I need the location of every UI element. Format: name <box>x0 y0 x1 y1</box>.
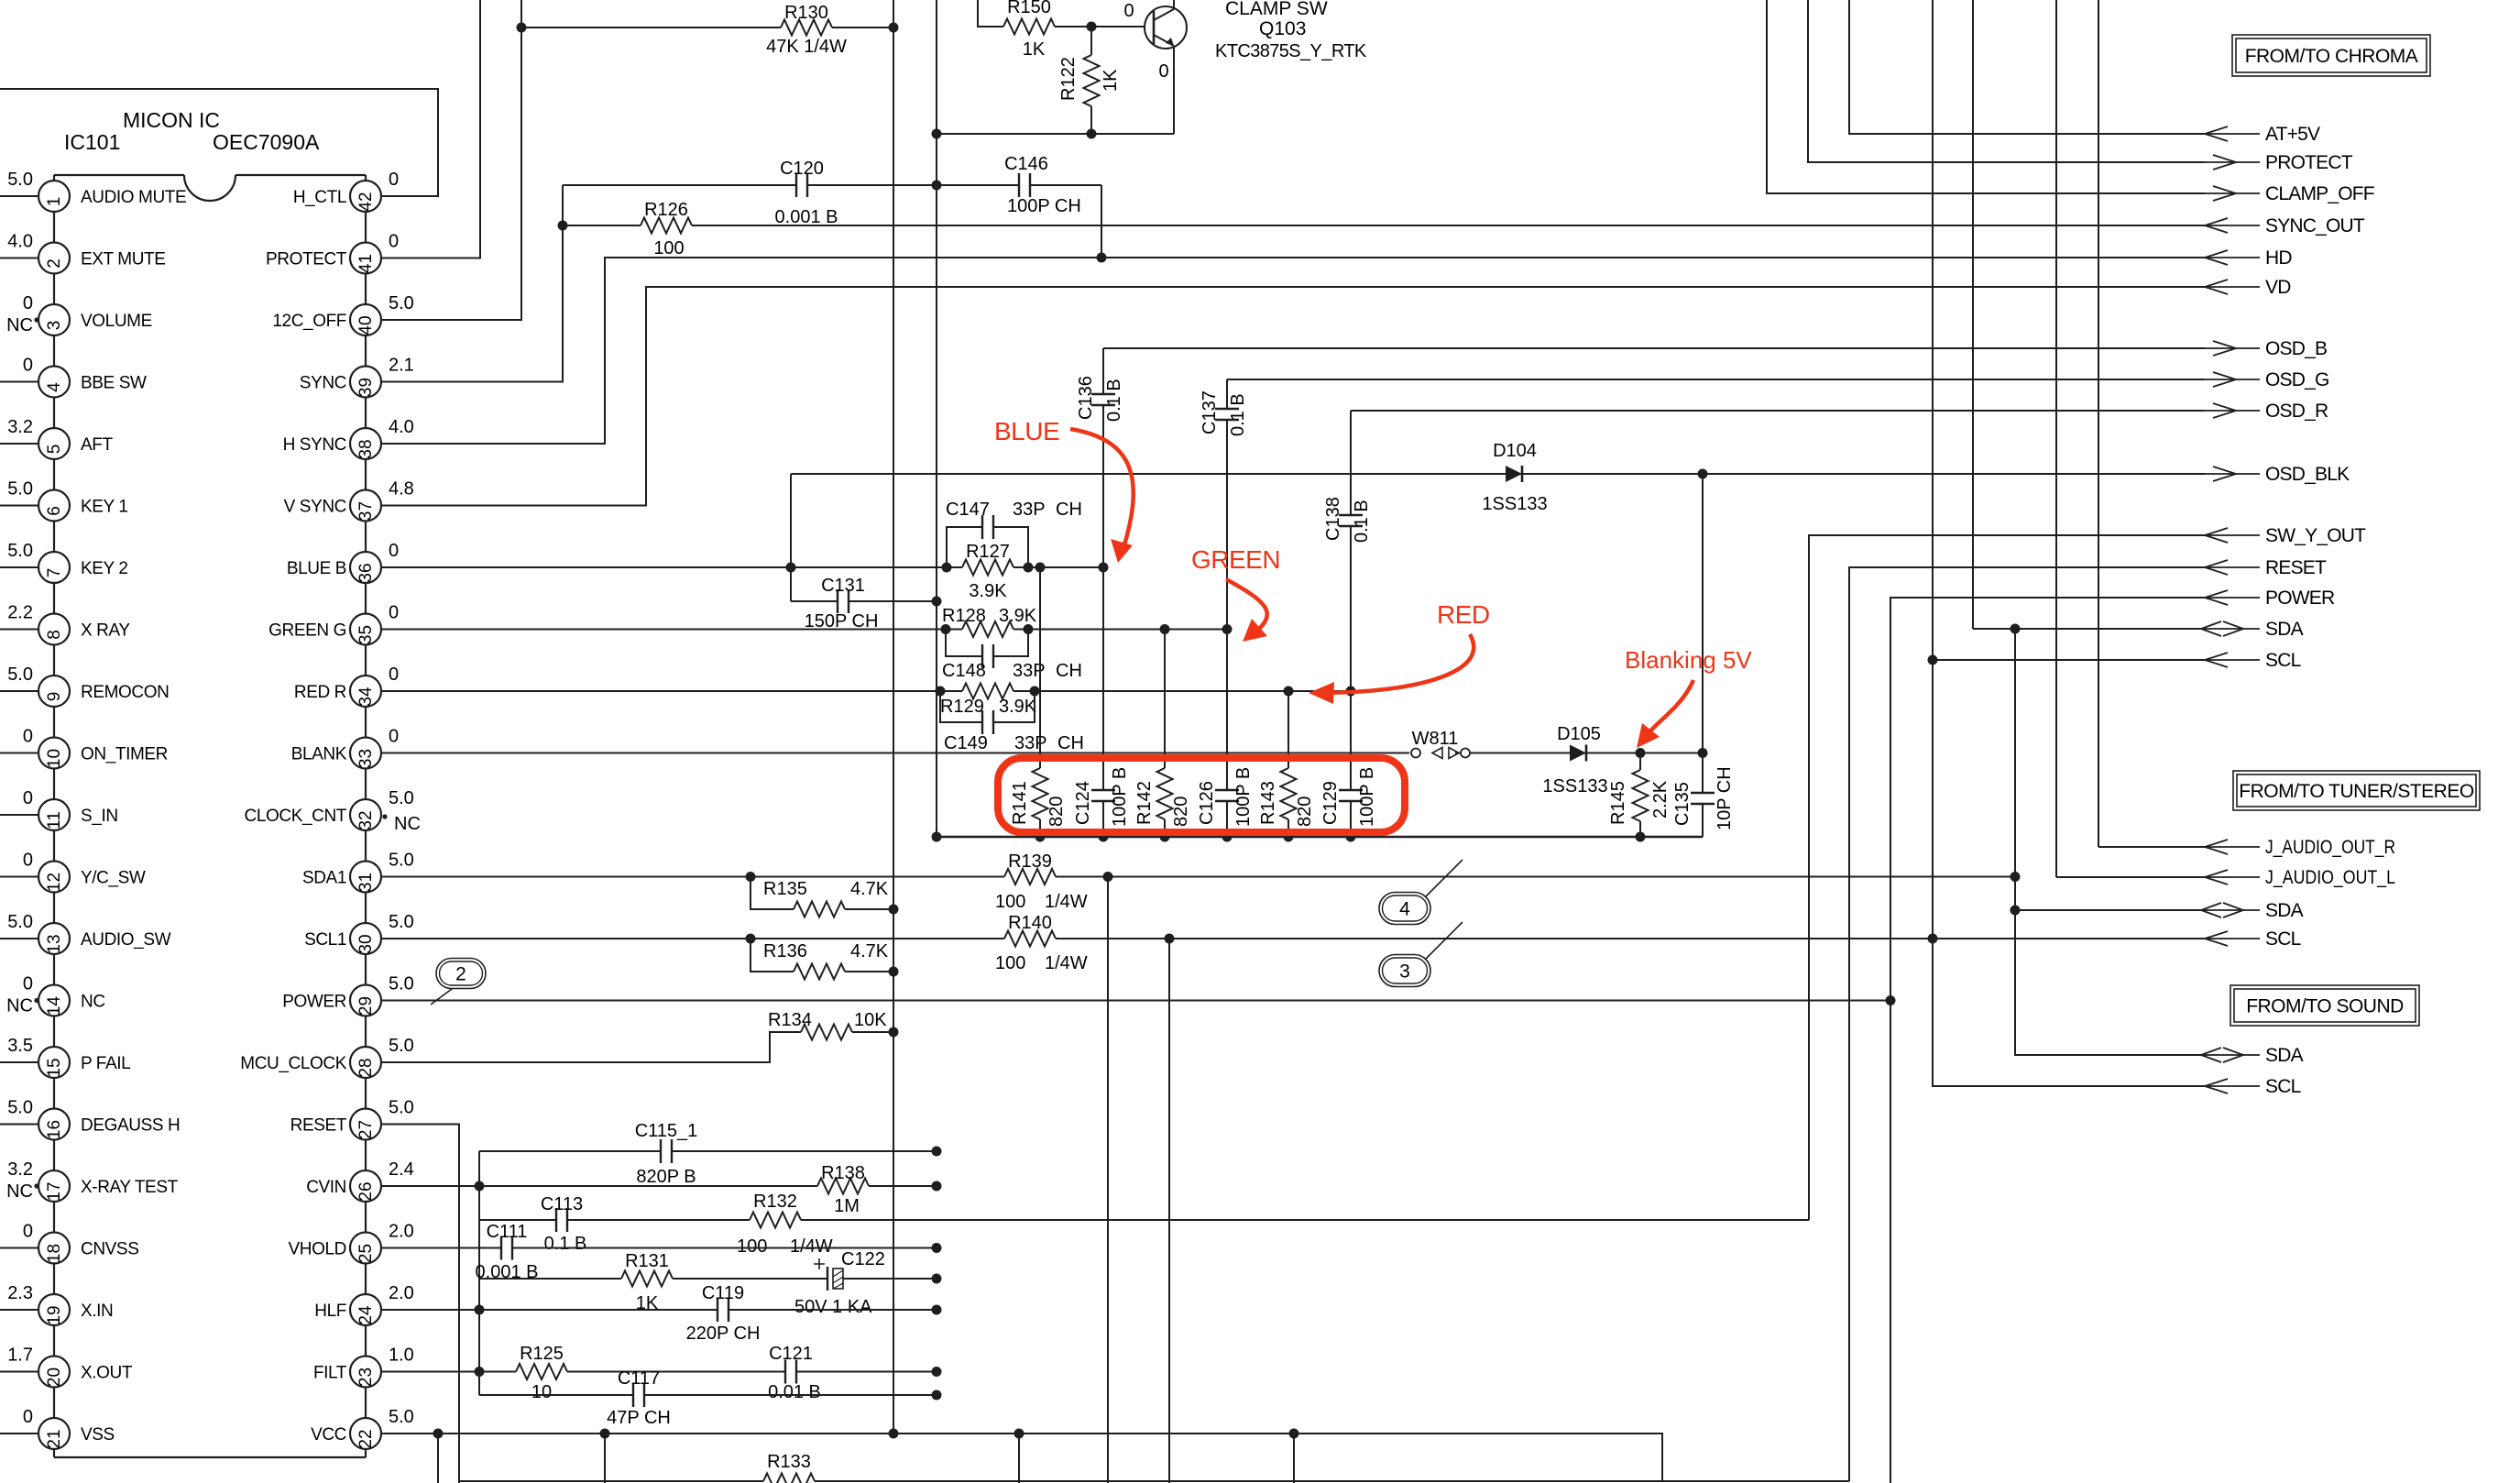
junction pin40 net / R130 <box>517 23 527 33</box>
svg-text:5.0: 5.0 <box>7 1098 33 1118</box>
svg-text:CLAMP_OFF: CLAMP_OFF <box>2265 183 2374 204</box>
junction tuner SDA / vertical <box>2011 906 2021 916</box>
wire chroma SDA line <box>1973 628 2205 630</box>
junction R130 / +5V rail <box>889 23 899 33</box>
svg-text:C147: C147 <box>946 500 990 520</box>
IC pin 25 VHOLD <box>350 1233 381 1264</box>
wire PROTECT pin41 up off-page <box>381 0 480 258</box>
svg-text:R145: R145 <box>1608 781 1628 825</box>
wire vertical below VCC x=660 <box>604 1434 606 1483</box>
svg-text:33P: 33P <box>1013 500 1046 520</box>
svg-text:C115_1: C115_1 <box>635 1121 698 1141</box>
FROM/TO CHROMA box <box>2232 35 2430 76</box>
svg-text:IC101: IC101 <box>64 130 120 154</box>
svg-text:SDA1: SDA1 <box>302 869 346 888</box>
signal SYNC_OUT to chroma <box>2205 225 2260 226</box>
svg-text:W811: W811 <box>1412 729 1459 749</box>
svg-text:50V 1 KA: 50V 1 KA <box>794 1297 872 1317</box>
svg-text:BLANK: BLANK <box>291 745 347 764</box>
resistor R126 <box>641 224 692 226</box>
svg-text:3.9K: 3.9K <box>999 606 1037 626</box>
svg-text:RED R: RED R <box>294 683 346 702</box>
svg-text:C148: C148 <box>942 661 986 681</box>
svg-text:C124: C124 <box>1073 781 1093 825</box>
junction VHOLD / right vertical <box>932 1243 942 1253</box>
svg-text:10P CH: 10P CH <box>1715 766 1735 830</box>
resistor R143 value 820 <box>1287 691 1289 837</box>
signal OSD_G to chroma <box>2205 379 2260 380</box>
wire H_CTL pin42 to top-left <box>0 89 438 196</box>
wire OSD_R line <box>1351 410 2205 412</box>
capacitor C115_1 <box>661 1149 673 1153</box>
svg-text:R143: R143 <box>1258 781 1278 825</box>
svg-text:2.1: 2.1 <box>389 356 414 376</box>
svg-text:20: 20 <box>45 1368 64 1387</box>
svg-text:9: 9 <box>45 692 64 702</box>
svg-text:820: 820 <box>1295 796 1315 827</box>
svg-text:18: 18 <box>45 1244 64 1263</box>
svg-text:FROM/TO SOUND: FROM/TO SOUND <box>2246 996 2404 1017</box>
junction R136 / +5V rail <box>889 967 899 977</box>
svg-text:1SS133: 1SS133 <box>1542 776 1607 796</box>
junction GREEN / R128 right <box>1024 624 1034 634</box>
junction SYNC / R126 <box>558 221 568 231</box>
svg-text:220P CH: 220P CH <box>686 1324 761 1344</box>
svg-text:R131: R131 <box>625 1251 669 1271</box>
IC pin 33 BLANK <box>350 738 381 769</box>
svg-text:VHOLD: VHOLD <box>289 1240 346 1259</box>
svg-text:13: 13 <box>45 934 64 953</box>
wire SYNC_OUT line (R126) <box>563 225 2205 226</box>
junction R145 / bus <box>1636 832 1646 842</box>
signal OSD_BLK to chroma <box>2205 473 2260 475</box>
svg-text:26: 26 <box>356 1181 376 1201</box>
svg-text:R122: R122 <box>1058 57 1079 101</box>
junction RED / R129 right <box>1030 687 1040 697</box>
svg-text:SCL: SCL <box>2265 650 2301 671</box>
svg-text:AFT: AFT <box>81 435 113 455</box>
wire J_AUDIO_OUT_R vertical <box>2098 0 2099 847</box>
svg-text:1K: 1K <box>1023 39 1046 60</box>
resistor R139 <box>1004 875 1056 878</box>
wire HLF line <box>381 1309 937 1311</box>
svg-text:OEC7090A: OEC7090A <box>213 130 320 154</box>
junction RED / R129 left <box>936 687 946 697</box>
wire R131 C122 line <box>479 1278 937 1280</box>
svg-text:1.0: 1.0 <box>389 1346 414 1366</box>
svg-text:OSD_G: OSD_G <box>2265 369 2329 390</box>
svg-text:3.2: 3.2 <box>7 1159 33 1180</box>
junction RED / C138 C129 node <box>1346 687 1356 697</box>
junction VCC / vertical x=1112 <box>1014 1429 1024 1439</box>
svg-text:MCU_CLOCK: MCU_CLOCK <box>240 1054 346 1073</box>
signal CLAMP_OFF to chroma <box>2205 192 2260 194</box>
junction RED / R143 <box>1284 687 1294 697</box>
svg-text:22: 22 <box>356 1429 376 1448</box>
capacitor C138 branch from OSD_R <box>1350 411 1352 691</box>
svg-text:3.9K: 3.9K <box>999 697 1037 717</box>
svg-text:34: 34 <box>356 687 376 707</box>
svg-text:SYNC: SYNC <box>300 374 346 393</box>
IC pin 11 S_IN <box>0 814 38 816</box>
svg-text:0: 0 <box>389 665 399 685</box>
svg-text:41: 41 <box>356 254 376 273</box>
svg-text:31: 31 <box>356 873 376 892</box>
IC pin 5 AFT <box>0 443 38 445</box>
svg-text:R127: R127 <box>966 542 1010 562</box>
svg-text:6: 6 <box>45 506 64 516</box>
signal PROTECT to chroma <box>2205 161 2260 163</box>
red arrow RED <box>1327 634 1474 693</box>
svg-text:Y/C_SW: Y/C_SW <box>81 869 146 888</box>
junction HLF / right vertical <box>932 1305 942 1315</box>
wire FILT line <box>381 1371 937 1373</box>
svg-text:5.0: 5.0 <box>389 1098 414 1118</box>
IC pin 34 RED R <box>350 676 381 707</box>
wire AT+5V chroma from top <box>1849 0 2205 134</box>
wire chroma SCL line <box>1933 659 2205 661</box>
svg-text:0: 0 <box>23 851 33 871</box>
red arrow Blanking 5V <box>1645 680 1693 737</box>
svg-text:R138: R138 <box>821 1163 865 1183</box>
svg-text:OSD_B: OSD_B <box>2265 338 2327 359</box>
junction C146 / HD line <box>1097 253 1107 263</box>
svg-text:SCL1: SCL1 <box>304 930 346 950</box>
svg-text:C149: C149 <box>944 733 988 753</box>
capacitor C149 <box>982 720 994 724</box>
svg-text:VSS: VSS <box>81 1425 115 1445</box>
svg-text:RESET: RESET <box>290 1116 347 1136</box>
resistor R132 <box>750 1218 801 1221</box>
junction chroma SCL <box>1928 655 1938 665</box>
svg-text:HD: HD <box>2265 247 2292 269</box>
svg-text:1K: 1K <box>1101 69 1121 92</box>
wire R135 jog <box>751 877 893 910</box>
svg-text:33: 33 <box>356 749 376 768</box>
svg-text:PROTECT: PROTECT <box>266 250 347 269</box>
svg-text:C126: C126 <box>1197 781 1217 825</box>
IC pin 17 X-RAY TEST <box>38 1170 70 1202</box>
svg-text:X.OUT: X.OUT <box>81 1364 133 1383</box>
svg-text:FROM/TO CHROMA: FROM/TO CHROMA <box>2245 46 2418 67</box>
wire OSD_BLK drop to BLUE <box>790 474 792 601</box>
IC pin 41 PROTECT <box>350 243 381 274</box>
svg-text:C121: C121 <box>769 1344 813 1364</box>
svg-text:4: 4 <box>45 382 64 392</box>
svg-text:820: 820 <box>1171 796 1191 827</box>
svg-text:17: 17 <box>45 1181 64 1201</box>
wire VHOLD line <box>381 1247 937 1249</box>
svg-text:100: 100 <box>653 238 684 258</box>
svg-text:FILT: FILT <box>313 1364 347 1383</box>
wire C120 C146 line <box>563 184 1101 186</box>
svg-text:C135: C135 <box>1672 782 1693 826</box>
junction BLUE / R141 <box>1035 563 1046 573</box>
svg-text:GREEN: GREEN <box>1191 545 1280 574</box>
svg-text:0.1 B: 0.1 B <box>544 1234 587 1254</box>
svg-text:3.5: 3.5 <box>7 1036 33 1056</box>
svg-text:14: 14 <box>45 996 64 1016</box>
signal HD to chroma <box>2205 257 2260 258</box>
wire C115_1 line <box>479 1150 937 1152</box>
svg-text:32: 32 <box>356 810 376 829</box>
svg-text:2.0: 2.0 <box>389 1283 414 1303</box>
svg-text:R140: R140 <box>1008 913 1052 933</box>
IC pin 38 H SYNC <box>350 428 381 459</box>
svg-text:2.2K: 2.2K <box>1650 780 1671 818</box>
wire 12C_OFF pin40 up off-page <box>381 0 521 320</box>
junction BLUE / R127 right <box>1024 563 1034 573</box>
capacitor C136 branch from OSD_B <box>1102 348 1104 567</box>
wire BLUE B line <box>381 566 1103 568</box>
junction BLANK / R145 <box>1636 748 1646 758</box>
junction SCL1 / down vertical <box>1165 934 1175 944</box>
svg-text:100P B: 100P B <box>1110 767 1130 827</box>
svg-text:3: 3 <box>45 321 64 331</box>
resistor R129 <box>962 689 1013 692</box>
svg-text:27: 27 <box>356 1120 376 1139</box>
svg-text:0: 0 <box>23 1222 33 1242</box>
svg-text:35: 35 <box>356 625 376 644</box>
svg-text:0: 0 <box>389 541 399 561</box>
IC pin 35 GREEN G <box>350 614 381 645</box>
wire V SYNC pin37 to VD line <box>381 287 2205 506</box>
svg-text:30: 30 <box>356 934 376 953</box>
resistor R140 <box>1004 937 1056 939</box>
signal POWER to chroma <box>2205 597 2260 599</box>
svg-text:0: 0 <box>23 356 33 376</box>
svg-text:C137: C137 <box>1200 390 1220 434</box>
junction chroma SDA / I2C vertical <box>2011 624 2021 634</box>
svg-text:1: 1 <box>45 197 64 207</box>
svg-text:42: 42 <box>356 192 376 211</box>
junction SCL1 / R136 tap <box>746 934 756 944</box>
resistor R134 <box>801 1030 852 1033</box>
svg-text:CNVSS: CNVSS <box>81 1240 138 1259</box>
resistor R127 <box>962 566 1013 568</box>
svg-text:SDA: SDA <box>2265 900 2304 921</box>
wire C146 jog down to HD <box>1101 185 1102 258</box>
svg-text:AT+5V: AT+5V <box>2265 124 2320 145</box>
svg-text:R150: R150 <box>1007 0 1051 17</box>
svg-text:NC: NC <box>6 1181 33 1202</box>
svg-text:CVIN: CVIN <box>306 1178 346 1197</box>
svg-text:C146: C146 <box>1004 154 1048 174</box>
svg-text:C129: C129 <box>1320 781 1341 825</box>
transistor Q103 <box>1145 6 1187 49</box>
svg-text:21: 21 <box>45 1429 64 1448</box>
signal VD to chroma <box>2205 286 2260 288</box>
wire GREEN G line <box>381 629 1227 631</box>
svg-text:CH: CH <box>1056 661 1082 681</box>
IC pin 23 FILT <box>350 1357 381 1388</box>
svg-text:R142: R142 <box>1134 781 1155 825</box>
svg-text:C138: C138 <box>1323 497 1343 541</box>
svg-text:19: 19 <box>45 1305 64 1324</box>
wire RED R line <box>381 690 1351 692</box>
wire R133 bottom line <box>459 1480 1849 1482</box>
junction Q103 base node <box>1087 22 1097 32</box>
svg-text:DEGAUSS H: DEGAUSS H <box>81 1116 180 1136</box>
svg-text:0.1 B: 0.1 B <box>1228 393 1248 436</box>
svg-text:NC: NC <box>81 993 105 1012</box>
svg-text:0: 0 <box>23 727 33 747</box>
svg-text:MICON IC: MICON IC <box>123 108 220 132</box>
junction C115_1 / right vertical <box>932 1147 942 1157</box>
red arrow BLUE <box>1070 429 1134 548</box>
svg-text:AUDIO_SW: AUDIO_SW <box>81 930 171 950</box>
wire POWER chroma line <box>1890 598 2205 1483</box>
wire RESET chroma line <box>1849 567 2205 1481</box>
signal tuner SCL arrow <box>2205 938 2260 939</box>
svg-text:Blanking 5V: Blanking 5V <box>1625 646 1752 674</box>
svg-text:820P B: 820P B <box>636 1167 696 1187</box>
svg-text:R128: R128 <box>942 606 986 626</box>
svg-text:3: 3 <box>1399 961 1410 983</box>
svg-text:5.0: 5.0 <box>389 912 414 932</box>
wire blank vertical to C135 <box>1702 474 1704 837</box>
wire I2C SDA vertical <box>2014 629 2016 1055</box>
svg-text:16: 16 <box>45 1120 64 1139</box>
wire long vertical (clamp net) <box>936 0 937 837</box>
svg-text:38: 38 <box>356 439 376 458</box>
IC pin 29 POWER <box>350 985 381 1016</box>
svg-text:X.IN: X.IN <box>81 1302 113 1321</box>
signal AT+5V to chroma <box>2205 133 2260 135</box>
svg-text:10: 10 <box>45 749 64 768</box>
svg-text:KEY 1: KEY 1 <box>81 498 128 517</box>
svg-text:0: 0 <box>23 1407 33 1427</box>
resistor R145 <box>1639 753 1641 838</box>
svg-text:47P CH: 47P CH <box>607 1408 671 1428</box>
wire OSD_BLK line <box>791 473 2205 475</box>
junction bus / clamp vertical <box>932 832 942 842</box>
junction SCL1 / chroma SCL vertical <box>1928 934 1938 944</box>
svg-text:KTC3875S_Y_RTK: KTC3875S_Y_RTK <box>1215 41 1367 61</box>
svg-text:3.2: 3.2 <box>7 417 33 437</box>
svg-text:AUDIO MUTE: AUDIO MUTE <box>81 188 186 207</box>
svg-text:37: 37 <box>356 501 376 521</box>
junction VCC / vertical x=478 <box>433 1429 444 1439</box>
wire C131 branch <box>791 600 937 602</box>
svg-text:R135: R135 <box>763 879 807 899</box>
svg-text:BBE SW: BBE SW <box>81 374 147 393</box>
svg-text:1/4W: 1/4W <box>790 1236 833 1257</box>
capacitor C120 <box>796 183 808 187</box>
resistor R131 <box>621 1277 673 1280</box>
signal sound SDA <box>2015 910 2201 1055</box>
capacitor C111 <box>501 1247 513 1250</box>
svg-text:SDA: SDA <box>2265 619 2304 640</box>
svg-text:820: 820 <box>1046 796 1067 827</box>
svg-text:X RAY: X RAY <box>81 621 130 641</box>
svg-text:H SYNC: H SYNC <box>283 435 346 455</box>
svg-text:R129: R129 <box>940 697 984 717</box>
svg-text:2.2: 2.2 <box>7 603 33 623</box>
svg-text:47K 1/4W: 47K 1/4W <box>766 37 847 57</box>
junction SDA1 / down vertical <box>1103 872 1113 882</box>
svg-text:0: 0 <box>1123 1 1134 21</box>
svg-text:BLUE: BLUE <box>994 417 1059 445</box>
svg-text:C136: C136 <box>1076 376 1096 420</box>
svg-text:CH: CH <box>1056 500 1082 520</box>
signal sound SCL <box>1933 939 2205 1086</box>
wire vertical below VCC x=478 <box>437 1434 439 1483</box>
svg-text:SW_Y_OUT: SW_Y_OUT <box>2265 525 2366 546</box>
svg-text:1SS133: 1SS133 <box>1482 494 1547 514</box>
svg-text:POWER: POWER <box>282 993 346 1012</box>
svg-text:SCL: SCL <box>2265 928 2301 950</box>
svg-text:4.7K: 4.7K <box>850 941 889 961</box>
IC pin 37 V SYNC <box>350 490 381 522</box>
wire MCU_CLOCK to R134 <box>381 1032 893 1062</box>
svg-text:SCL: SCL <box>2265 1076 2301 1097</box>
svg-text:10: 10 <box>531 1382 552 1402</box>
resistor R130 <box>781 26 832 28</box>
wire chroma SDA vertical <box>1972 0 1974 629</box>
svg-text:5.0: 5.0 <box>389 1036 414 1056</box>
wire C117 line <box>479 1394 937 1396</box>
IC pin 22 VCC <box>350 1418 381 1449</box>
svg-text:D105: D105 <box>1557 724 1601 744</box>
capacitor C122 <box>827 1277 841 1280</box>
capacitor C137 branch from OSD_G <box>1226 379 1228 630</box>
svg-text:8: 8 <box>45 630 64 640</box>
svg-text:0: 0 <box>389 727 399 747</box>
IC pin 20 X.OUT <box>0 1371 38 1373</box>
signal SW_Y_OUT to chroma <box>2205 534 2260 536</box>
junction HLF / left vertical <box>475 1305 485 1315</box>
svg-text:VD: VD <box>2265 277 2291 298</box>
svg-text:KEY 2: KEY 2 <box>81 559 128 578</box>
wire OSD_B line <box>1103 347 2205 349</box>
svg-text:23: 23 <box>356 1368 376 1387</box>
svg-text:33P: 33P <box>1014 733 1047 753</box>
signal OSD_R to chroma <box>2205 410 2260 412</box>
svg-text:C119: C119 <box>702 1283 744 1303</box>
wire C148 loop <box>946 630 1028 657</box>
IC pin 9 REMOCON <box>0 690 38 692</box>
svg-text:X-RAY TEST: X-RAY TEST <box>81 1178 179 1197</box>
IC pin 30 SCL1 <box>350 923 381 954</box>
capacitor C129 value 100P B <box>1350 691 1352 837</box>
svg-text:36: 36 <box>356 563 376 582</box>
svg-text:5.0: 5.0 <box>7 665 33 685</box>
junction OSD_BLK / blank vertical <box>1698 469 1708 479</box>
wire +5V rail vertical <box>893 0 894 1434</box>
svg-text:0: 0 <box>23 974 33 994</box>
jumper W811 <box>1409 751 1455 756</box>
wire C147 loop <box>947 527 1028 567</box>
capacitor C121 <box>785 1370 797 1374</box>
wire SCL1 line <box>381 938 2205 939</box>
resistor R142 value 820 <box>1164 630 1166 838</box>
resistor R138 <box>817 1184 869 1187</box>
svg-text:4.0: 4.0 <box>389 417 414 437</box>
connector pill 2 <box>431 986 455 1005</box>
wire vertical below VCC x=1112 <box>1018 1434 1020 1483</box>
svg-text:2: 2 <box>45 258 64 269</box>
junction SDA1 / R135 tap <box>746 872 756 882</box>
svg-text:EXT MUTE: EXT MUTE <box>81 250 166 269</box>
svg-text:5.0: 5.0 <box>389 974 414 994</box>
svg-text:10K: 10K <box>854 1010 887 1030</box>
svg-text:5.0: 5.0 <box>389 788 414 808</box>
signal J_AUDIOO_OUT_L <box>2056 876 2205 878</box>
svg-text:5.0: 5.0 <box>7 912 33 932</box>
svg-text:H_CTL: H_CTL <box>293 188 346 207</box>
wire CVIN line <box>381 1185 937 1187</box>
